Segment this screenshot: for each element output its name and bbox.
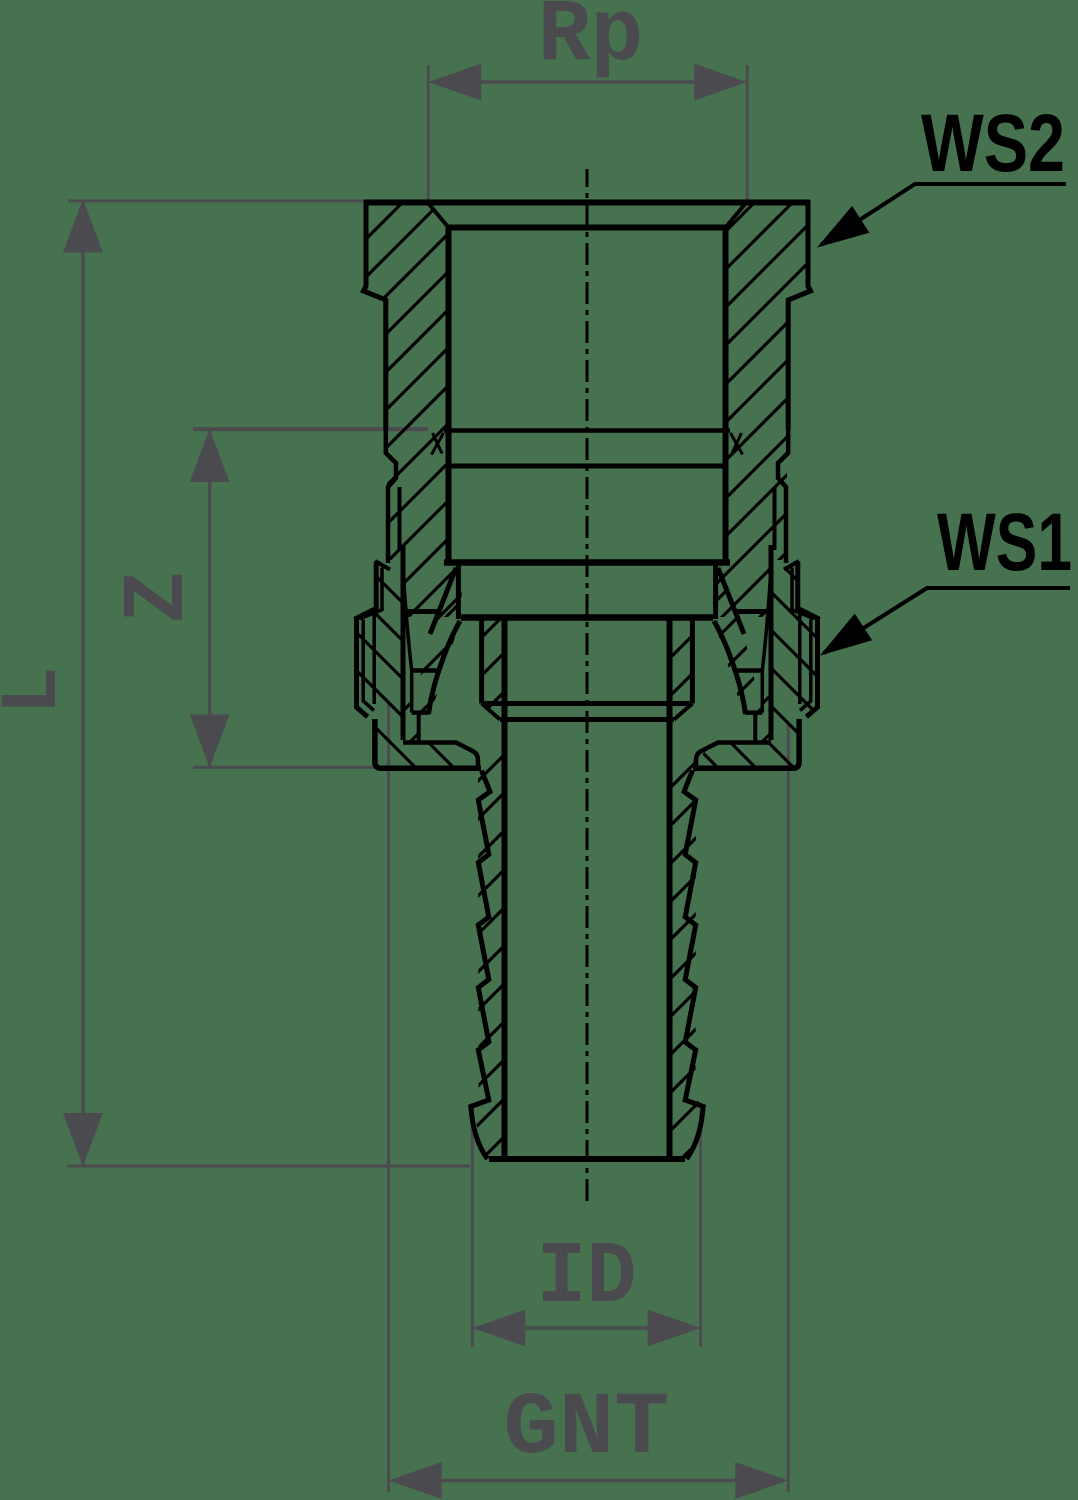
hose bore wall left: [502, 619, 508, 1159]
L arrow top: [63, 200, 103, 253]
thread bore top edge: [446, 225, 728, 231]
nut wing inner edge right: [800, 620, 811, 711]
cone bottom edge: [482, 701, 693, 706]
socket thread profile left: [386, 428, 396, 563]
Z arrow bottom: [190, 714, 230, 767]
tailpiece bell curve left: [429, 621, 461, 714]
socket thread profile right: [778, 428, 788, 563]
hose bore wall right: [667, 619, 673, 1159]
Rp arrow left: [428, 64, 481, 101]
GNT arrow right: [735, 1462, 788, 1499]
ID extension line left: [471, 1103, 474, 1347]
nut wing inner edge left: [363, 620, 374, 711]
L arrow bottom: [63, 1113, 103, 1166]
thread runout mark left b: [433, 433, 443, 454]
nut top chamfer edge left: [375, 561, 390, 570]
socket end face right: [737, 609, 772, 614]
nut top chamfer edge right: [784, 561, 799, 570]
socket end face left: [402, 609, 437, 614]
svg-text:WS1: WS1: [937, 497, 1072, 588]
tailpiece bottom face: [489, 1156, 685, 1162]
nut internal wall right: [761, 671, 765, 713]
L dimension line: [81, 200, 85, 1166]
nut top flank inner edge left: [360, 568, 382, 619]
svg-text:GNT: GNT: [504, 1380, 670, 1479]
nut wing outline left: [357, 619, 368, 717]
tailpiece flange edge left: [417, 713, 421, 741]
nut seat face left: [412, 710, 429, 715]
tailpiece flange edge right: [753, 713, 757, 741]
nut internal step right: [733, 668, 764, 673]
nut internal wall left: [410, 671, 414, 713]
socket seat wall right: [713, 564, 718, 619]
svg-text:L: L: [0, 666, 80, 715]
Rp dimension line: [448, 80, 727, 84]
svg-text:Z: Z: [110, 571, 209, 624]
Rp extension line right: [746, 65, 749, 203]
nut wing outline right: [806, 619, 817, 717]
ID arrow left: [472, 1310, 525, 1347]
socket outer wall right: [788, 200, 810, 430]
shank shoulder edge: [500, 717, 674, 722]
tailpiece cone left: [479, 620, 484, 704]
cone chamfer right: [674, 704, 692, 720]
nut top flank right: [798, 562, 820, 620]
tailpiece bell curve right: [714, 621, 746, 714]
barb ribs right: [684, 771, 703, 1160]
socket seat wall left: [456, 564, 461, 619]
GNT dimension line: [408, 1479, 769, 1483]
socket seat chamfer left: [430, 568, 456, 634]
Z extension line top: [193, 427, 428, 431]
socket outer wall left: [364, 200, 386, 430]
GNT extension line left: [387, 702, 390, 1492]
L extension line top: [68, 199, 430, 202]
thread bore wall right: [723, 227, 729, 565]
thread runout mark left a: [432, 433, 444, 455]
svg-text:WS2: WS2: [921, 98, 1065, 189]
svg-text:ID: ID: [537, 1229, 637, 1328]
bore chamfer left: [428, 203, 449, 228]
cone chamfer left: [482, 704, 500, 720]
nut thread runout left: [404, 576, 412, 671]
ID extension line right: [699, 1110, 702, 1347]
svg-text:Rp: Rp: [538, 0, 644, 86]
Z dimension line: [208, 429, 212, 767]
nut skirt + bottom face right: [693, 719, 799, 768]
ID dimension line: [490, 1326, 683, 1330]
ID arrow right: [648, 1310, 701, 1347]
tailpiece flange top edge: [461, 614, 713, 621]
nut bore wall left: [401, 545, 406, 740]
nut bore wall right: [769, 545, 774, 740]
socket thread root left: [398, 487, 402, 550]
nut top flank inner edge right: [792, 568, 814, 619]
WS1 leader line: [824, 588, 1070, 653]
socket chamber bottom edge: [444, 559, 730, 566]
Rp arrow right: [694, 64, 747, 101]
socket seat chamfer right: [718, 568, 744, 634]
thread bore wall left: [446, 227, 452, 565]
thread runout mark right b: [732, 433, 742, 454]
Rp extension line left: [427, 65, 430, 203]
thread end line: [444, 428, 730, 433]
thread runout line: [446, 464, 728, 469]
nut thread runout right: [762, 576, 770, 671]
GNT arrow left: [389, 1462, 442, 1499]
WS2 arrowhead: [817, 206, 869, 248]
GNT extension line right: [787, 722, 790, 1492]
Z extension line bottom: [193, 766, 391, 769]
nut seat face right: [745, 710, 762, 715]
nut internal step left: [410, 668, 441, 673]
nut flat edge left: [372, 614, 376, 704]
nut skirt inner face left: [403, 743, 478, 767]
socket thread root right: [773, 487, 777, 550]
socket top face: [364, 200, 810, 206]
centerline (dash-dot): [586, 169, 589, 1201]
WS2 leader line: [821, 184, 1066, 245]
Z arrow top: [190, 429, 230, 482]
nut skirt inner face right: [696, 743, 771, 767]
nut skirt + bottom face left: [375, 719, 481, 768]
thread runout mark right a: [731, 433, 743, 455]
nut flat edge right: [798, 614, 802, 704]
WS1 arrowhead: [820, 614, 872, 656]
bore chamfer right: [725, 203, 746, 228]
L extension line bottom: [68, 1165, 471, 1168]
barb ribs left: [471, 771, 490, 1160]
nut top flank left: [354, 562, 376, 620]
tailpiece cone right: [690, 620, 695, 704]
